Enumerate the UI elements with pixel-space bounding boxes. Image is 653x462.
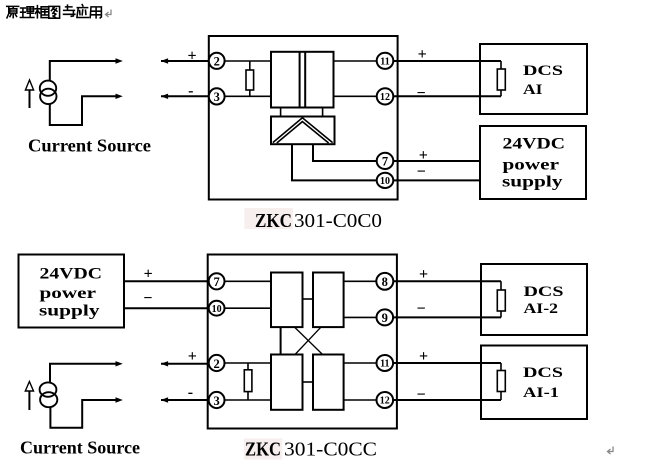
- svg-text:−: −: [417, 163, 426, 180]
- terminal 2: [209, 53, 225, 69]
- svg-text:ZKC: ZKC: [245, 439, 281, 461]
- wire terminal 10 to 24VDC -: [393, 179, 480, 181]
- 24VDC power supply box (left): [19, 255, 125, 328]
- wire amp to terminal 11: [334, 60, 378, 62]
- char 与: [64, 5, 75, 16]
- wire terminal 12 to DCS AI -: [393, 95, 501, 97]
- wire resistor branch bottom: [249, 90, 251, 96]
- resistor R input: [246, 70, 254, 90]
- terminal 10: [377, 173, 394, 188]
- svg-text:10: 10: [212, 304, 222, 315]
- terminal 3: [209, 88, 225, 104]
- wire I2 bottom jog: [50, 400, 119, 428]
- wire block B to terminal 11: [344, 362, 378, 364]
- char 图: [49, 6, 60, 18]
- svg-text:+: +: [187, 48, 196, 65]
- svg-text:2: 2: [213, 357, 219, 371]
- highlight ZKC: [244, 208, 293, 229]
- svg-text:+: +: [419, 147, 428, 164]
- isolator main box ZKC301-C0CC: [208, 255, 397, 429]
- svg-text:11: 11: [380, 359, 389, 370]
- 24VDC power supply box: [480, 126, 586, 199]
- svg-text:12: 12: [380, 92, 390, 103]
- svg-text:+: +: [188, 348, 197, 365]
- label DCS AI: [523, 63, 563, 98]
- wire resistor branch top: [249, 61, 251, 70]
- wire 24VDC - to terminal 10: [124, 307, 209, 309]
- arrow node + left (I2): [116, 361, 123, 366]
- wire terminal 3 to amp: [225, 95, 271, 97]
- bottom diagram: [19, 255, 588, 461]
- svg-text:-: -: [188, 384, 193, 401]
- wire to terminal 2: [161, 60, 209, 62]
- wire between B blocks: [303, 381, 314, 383]
- svg-text:9: 9: [382, 311, 388, 325]
- label ZKC301-C0C0: [255, 210, 382, 232]
- svg-text:AI: AI: [523, 82, 543, 98]
- terminal 11 (bottom): [377, 355, 394, 371]
- svg-text:3: 3: [214, 90, 220, 104]
- terminal 7: [377, 153, 394, 169]
- wire terminal 3 to amp B: [225, 399, 272, 401]
- current source I1 circles: [40, 81, 57, 105]
- wire terminal 11 to DCS AI-1 +: [393, 362, 501, 364]
- svg-text:8: 8: [382, 275, 388, 289]
- title 原理框图与应用: [7, 5, 102, 19]
- svg-text:power: power: [503, 156, 560, 173]
- current source I1 arrow: [25, 80, 33, 108]
- wire terminal 2 to amp B: [225, 362, 272, 364]
- wire vertical link A-B: [280, 327, 282, 354]
- DCS AI-1 box: [481, 346, 587, 420]
- svg-text:Current Source: Current Source: [28, 136, 151, 156]
- isolation amplifier U1: [271, 52, 334, 108]
- resistor R load AI-2: [497, 290, 505, 311]
- wire resistor branch DCS AI: [500, 61, 502, 96]
- svg-text:3: 3: [213, 394, 219, 408]
- arrow into terminal 3: [161, 94, 168, 99]
- svg-text:11: 11: [380, 56, 389, 67]
- wire terminal 7 to 24VDC +: [393, 160, 480, 162]
- converter block B left: [271, 355, 303, 410]
- wire between A blocks: [303, 298, 314, 300]
- svg-text:10: 10: [380, 176, 390, 187]
- wire to terminal 2 (bottom): [161, 363, 209, 365]
- char 用: [90, 7, 101, 18]
- wire to terminal 3 (bottom): [161, 399, 209, 401]
- svg-text:−: −: [416, 301, 425, 318]
- terminal 3 (bottom): [209, 392, 225, 408]
- highlight ZKC (bottom): [244, 439, 282, 460]
- svg-text:7: 7: [213, 275, 219, 289]
- svg-text:301-C0C0: 301-C0C0: [294, 210, 382, 232]
- DC/DC converter T1: [271, 117, 335, 145]
- converter block A left: [271, 273, 303, 328]
- wire terminal 2 to amp: [225, 60, 271, 62]
- svg-text:−: −: [416, 85, 425, 102]
- svg-text:AI-2: AI-2: [524, 301, 559, 317]
- paragraph mark bottom: [608, 447, 614, 455]
- wire block A to terminal 8: [344, 280, 378, 282]
- wire terminal 10 to converter A: [225, 307, 272, 309]
- wire I1 top to node: [50, 61, 119, 81]
- label 24VDC power supply: [502, 136, 565, 191]
- svg-text:301-C0CC: 301-C0CC: [284, 439, 377, 461]
- current source I2 arrow: [25, 382, 33, 411]
- DCS AI-2 box: [481, 264, 587, 335]
- arrow node - left (I2): [116, 397, 123, 402]
- char 理: [20, 7, 34, 18]
- connector U1 to DC/DC: [281, 108, 323, 117]
- terminal 8: [376, 273, 393, 290]
- svg-text:DCS: DCS: [523, 365, 563, 381]
- terminal 11: [377, 53, 394, 69]
- wire resistor branch (bottom): [247, 363, 249, 400]
- current source I2 circles: [40, 382, 58, 407]
- wire cross diagonal 1: [295, 327, 323, 354]
- svg-text:12: 12: [380, 396, 390, 407]
- label 24VDC power supply: [39, 265, 102, 319]
- resistor R load AI: [497, 69, 505, 90]
- svg-text:supply: supply: [502, 174, 563, 191]
- wire terminal 7 to converter A: [225, 280, 272, 282]
- arrow into terminal 2: [161, 58, 168, 63]
- DCS AI box: [480, 44, 587, 114]
- svg-text:Current Source: Current Source: [20, 438, 140, 458]
- converter block B right: [313, 355, 344, 410]
- terminal 7 (bottom): [209, 273, 225, 289]
- svg-text:2: 2: [214, 55, 220, 69]
- wire block A to terminal 9: [344, 316, 378, 318]
- label ZKC301-C0CC: [245, 439, 377, 461]
- arrow node + left: [116, 58, 123, 63]
- wire DC/DC to terminal 10: [292, 144, 377, 180]
- svg-text:−: −: [416, 386, 425, 403]
- svg-text:24VDC: 24VDC: [40, 265, 103, 282]
- svg-text:7: 7: [382, 155, 388, 169]
- terminal 12: [377, 88, 394, 104]
- arrow into terminal 2 (bottom): [161, 361, 168, 366]
- svg-text:+: +: [419, 266, 428, 283]
- terminal 2 (bottom): [209, 355, 225, 371]
- terminal 9: [377, 309, 394, 325]
- wire terminal 11 to DCS AI +: [393, 60, 501, 62]
- isolator main box ZKC301-C0C0: [209, 36, 398, 200]
- svg-text:supply: supply: [39, 302, 100, 319]
- wire terminal 8 to DCS AI-2 +: [393, 280, 501, 282]
- wire block B to terminal 12: [344, 399, 378, 401]
- svg-text:power: power: [40, 285, 97, 302]
- svg-text:+: +: [418, 46, 427, 63]
- char 原: [7, 6, 19, 18]
- resistor R load AI-1: [497, 371, 505, 392]
- char 应: [77, 5, 89, 18]
- svg-text:+: +: [144, 266, 153, 283]
- wire I1 bottom jog: [50, 96, 119, 125]
- svg-text:AI-1: AI-1: [523, 385, 559, 401]
- svg-text:+: +: [419, 348, 428, 365]
- wire 24VDC + to terminal 7: [124, 280, 209, 282]
- wire resistor branch AI-1: [500, 363, 502, 400]
- wire terminal 12 to DCS AI-1 -: [393, 399, 501, 401]
- wire DC/DC to terminal 7: [313, 144, 377, 161]
- svg-text:-: -: [188, 82, 193, 99]
- paragraph mark: [106, 10, 112, 18]
- svg-text:−: −: [143, 290, 152, 307]
- svg-text:DCS: DCS: [523, 63, 563, 79]
- label DCS AI-2: [524, 284, 564, 317]
- wire cross diagonal 2: [295, 327, 321, 354]
- svg-text:24VDC: 24VDC: [503, 136, 566, 153]
- arrow into terminal 3 (bottom): [161, 397, 168, 402]
- top diagram: [25, 36, 587, 232]
- converter block A right: [313, 273, 344, 328]
- wire I2 top to node: [50, 364, 119, 383]
- svg-text:ZKC: ZKC: [255, 210, 292, 232]
- wire terminal 9 to DCS AI-2 -: [393, 316, 501, 318]
- terminal 10 (bottom): [209, 301, 225, 316]
- wire amp to terminal 12: [334, 95, 378, 97]
- arrow node - left: [116, 94, 123, 99]
- wire resistor branch AI-2: [500, 281, 502, 317]
- label DCS AI-1: [523, 365, 563, 401]
- resistor R input (bottom): [244, 370, 252, 392]
- svg-text:DCS: DCS: [524, 284, 564, 300]
- char 框: [35, 6, 48, 18]
- wire to terminal 3: [161, 95, 209, 97]
- terminal 12 (bottom): [377, 392, 394, 408]
